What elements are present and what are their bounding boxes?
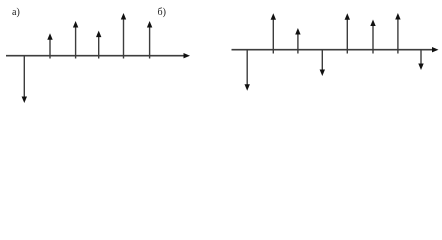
stem b2 up arrow <box>271 13 276 53</box>
stem b8 down arrow <box>418 49 423 70</box>
stem b1 down arrow <box>245 49 250 91</box>
stem b3 up arrow <box>295 28 300 54</box>
stem a2 up arrow <box>47 33 52 58</box>
stem a4 up arrow <box>96 31 101 59</box>
axis (b) horizontal with right arrow <box>232 47 439 52</box>
stem a1 down arrow <box>22 55 27 103</box>
svg-text:б): б) <box>158 7 166 18</box>
stem b7 up arrow <box>395 13 400 54</box>
stem b6 up arrow <box>370 20 375 54</box>
axis (a) horizontal with right arrow <box>6 53 190 58</box>
stem a6 up arrow <box>147 21 152 59</box>
svg-text:а): а) <box>12 7 20 18</box>
stem a3 up arrow <box>73 21 78 59</box>
stem b4 down arrow <box>320 49 325 76</box>
stem a5 up arrow <box>121 13 126 59</box>
stem b5 up arrow <box>345 13 350 53</box>
